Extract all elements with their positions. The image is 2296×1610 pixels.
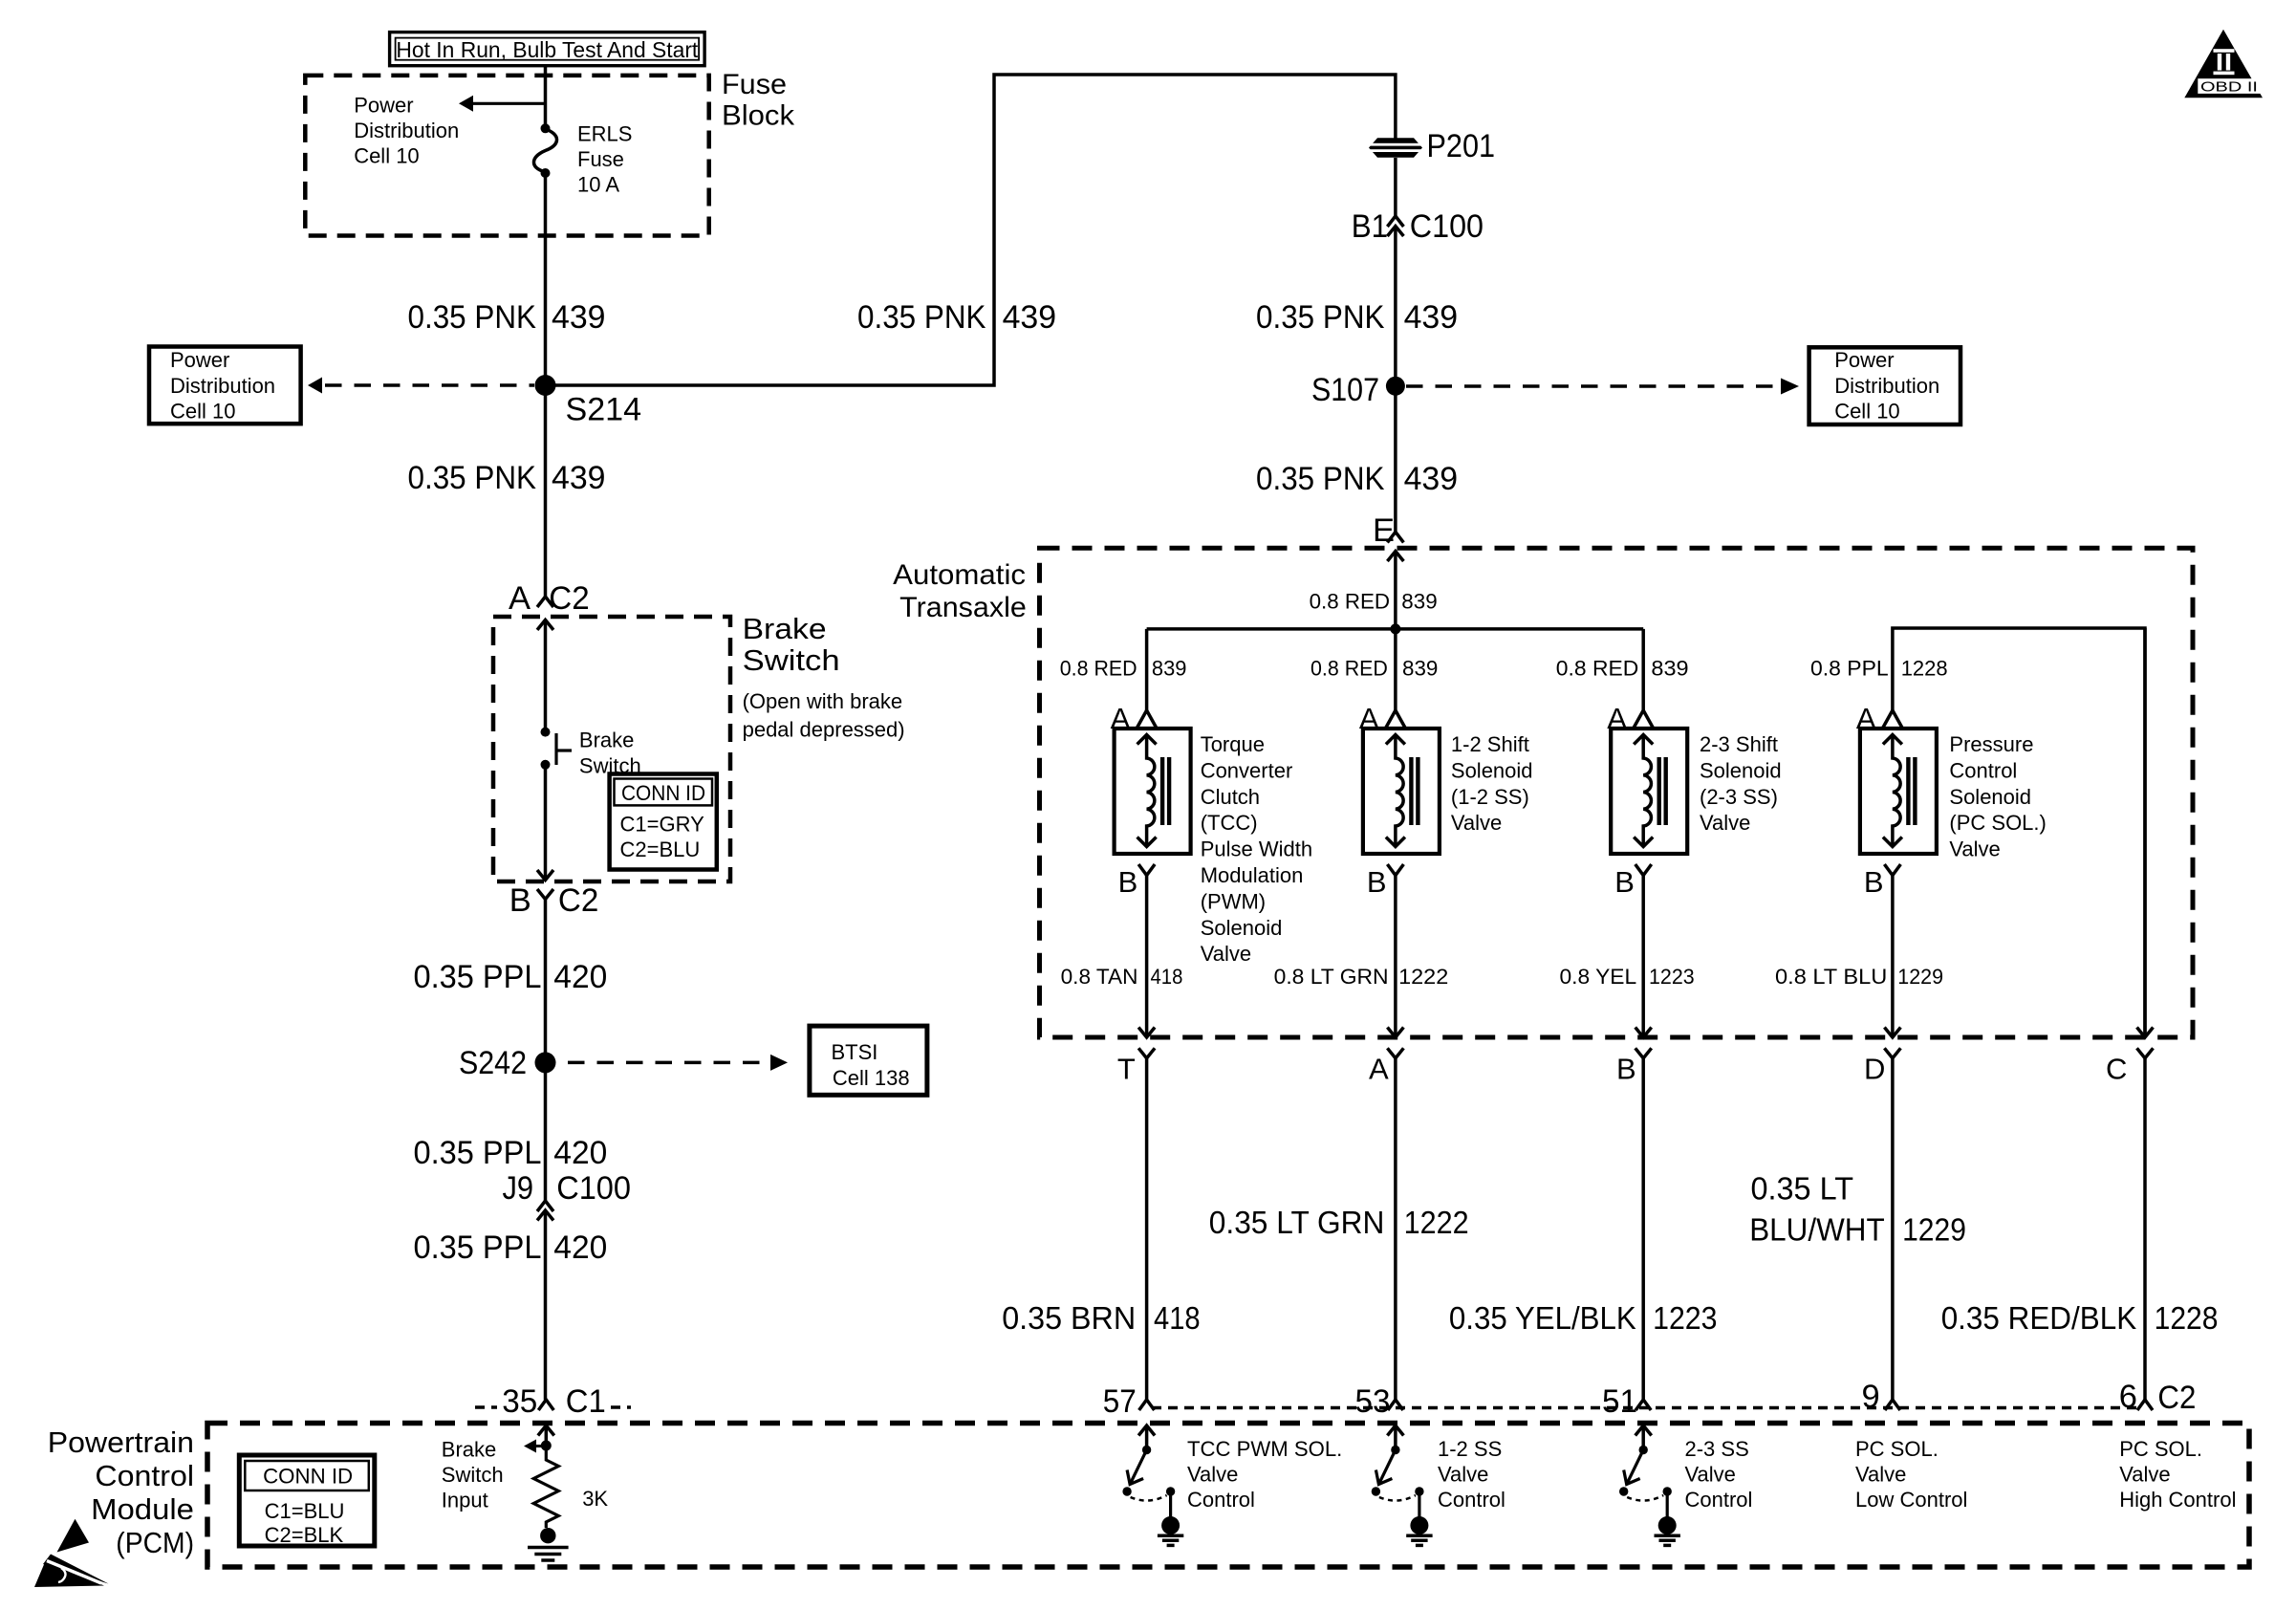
svg-text:Switch: Switch <box>442 1463 504 1487</box>
svg-text:(PCM): (PCM) <box>116 1526 194 1559</box>
svg-text:Module: Module <box>91 1492 194 1526</box>
svg-text:(1-2 SS): (1-2 SS) <box>1451 785 1529 809</box>
svg-text:A: A <box>509 580 531 617</box>
svg-text:P201: P201 <box>1427 128 1496 164</box>
svg-text:1222: 1222 <box>1398 965 1448 989</box>
svg-text:1228: 1228 <box>2155 1300 2219 1336</box>
svg-text:C1=GRY: C1=GRY <box>620 812 705 836</box>
svg-text:Fuse: Fuse <box>577 147 624 171</box>
svg-text:Solenoid: Solenoid <box>1700 758 1782 782</box>
svg-text:53: 53 <box>1355 1383 1391 1420</box>
svg-text:0.35 PPL: 0.35 PPL <box>414 959 542 995</box>
svg-text:6: 6 <box>2119 1379 2137 1415</box>
svg-text:0.8 RED: 0.8 RED <box>1310 657 1388 681</box>
svg-text:Solenoid: Solenoid <box>1949 785 2031 809</box>
svg-text:0.35 RED/BLK: 0.35 RED/BLK <box>1941 1300 2137 1336</box>
svg-text:C2=BLK: C2=BLK <box>265 1523 344 1547</box>
svg-text:1223: 1223 <box>1649 965 1695 989</box>
svg-text:C1=BLU: C1=BLU <box>265 1499 345 1523</box>
svg-text:C: C <box>2106 1053 2127 1086</box>
svg-text:Valve: Valve <box>1685 1463 1736 1487</box>
svg-text:Brake: Brake <box>442 1438 496 1462</box>
svg-text:Control: Control <box>1438 1488 1505 1512</box>
svg-text:51: 51 <box>1602 1383 1637 1420</box>
svg-text:420: 420 <box>553 959 607 995</box>
svg-text:Cell 138: Cell 138 <box>833 1066 910 1090</box>
svg-text:Control: Control <box>95 1459 194 1492</box>
svg-text:Modulation: Modulation <box>1201 863 1304 887</box>
svg-text:CONN ID: CONN ID <box>621 781 705 805</box>
svg-text:Control: Control <box>1685 1488 1753 1512</box>
svg-text:439: 439 <box>1003 299 1057 336</box>
svg-text:(Open with brake: (Open with brake <box>743 689 903 713</box>
svg-text:Brake: Brake <box>579 729 634 752</box>
svg-text:(2-3 SS): (2-3 SS) <box>1700 785 1778 809</box>
svg-text:Hot In Run, Bulb Test And Star: Hot In Run, Bulb Test And Start <box>396 37 698 62</box>
svg-text:Distribution: Distribution <box>170 374 275 398</box>
svg-text:C2: C2 <box>549 580 589 617</box>
svg-text:Power: Power <box>354 93 413 117</box>
svg-text:0.35 PPL: 0.35 PPL <box>414 1229 542 1266</box>
svg-text:418: 418 <box>1151 965 1183 989</box>
svg-text:OBD II: OBD II <box>2200 80 2258 96</box>
svg-text:CONN ID: CONN ID <box>263 1465 353 1489</box>
svg-text:0.8 YEL: 0.8 YEL <box>1560 965 1637 989</box>
svg-text:Distribution: Distribution <box>1834 374 1939 398</box>
svg-text:839: 839 <box>1401 590 1437 614</box>
svg-text:B1: B1 <box>1352 208 1388 245</box>
svg-text:439: 439 <box>552 299 606 336</box>
svg-text:420: 420 <box>553 1229 607 1266</box>
svg-text:Power: Power <box>170 348 229 372</box>
svg-text:B: B <box>1367 865 1387 899</box>
svg-text:0.8 LT GRN: 0.8 LT GRN <box>1274 965 1389 989</box>
svg-text:S214: S214 <box>566 392 642 428</box>
svg-text:Pressure: Pressure <box>1949 732 2033 756</box>
svg-text:C2=BLU: C2=BLU <box>620 838 701 861</box>
svg-text:(PWM): (PWM) <box>1201 889 1266 913</box>
svg-text:Automatic: Automatic <box>893 559 1026 591</box>
svg-text:Brake: Brake <box>743 612 827 645</box>
svg-text:Valve: Valve <box>1187 1463 1238 1487</box>
svg-text:TCC PWM SOL.: TCC PWM SOL. <box>1187 1437 1342 1461</box>
svg-text:0.8 TAN: 0.8 TAN <box>1061 965 1138 989</box>
svg-text:0.35 BRN: 0.35 BRN <box>1002 1300 1136 1336</box>
svg-text:1223: 1223 <box>1653 1300 1717 1336</box>
svg-text:Power: Power <box>1834 348 1894 372</box>
svg-text:C2: C2 <box>558 882 598 919</box>
svg-text:0.8 RED: 0.8 RED <box>1060 657 1137 681</box>
svg-text:C100: C100 <box>1410 208 1484 245</box>
svg-text:Cell 10: Cell 10 <box>354 143 419 167</box>
svg-text:3K: 3K <box>582 1487 608 1511</box>
svg-text:Input: Input <box>442 1489 488 1512</box>
svg-text:Clutch: Clutch <box>1201 785 1260 809</box>
svg-text:Block: Block <box>722 100 795 132</box>
svg-text:57: 57 <box>1103 1383 1137 1420</box>
svg-text:0.35 PNK: 0.35 PNK <box>408 299 537 336</box>
svg-text:1229: 1229 <box>1897 965 1943 989</box>
svg-text:10 A: 10 A <box>577 173 619 197</box>
svg-text:Valve: Valve <box>1949 838 2000 861</box>
svg-text:35: 35 <box>502 1383 537 1420</box>
svg-text:High Control: High Control <box>2119 1488 2236 1512</box>
svg-text:Torque: Torque <box>1201 732 1265 756</box>
svg-text:Solenoid: Solenoid <box>1201 916 1283 940</box>
svg-text:D: D <box>1864 1053 1885 1086</box>
svg-text:Solenoid: Solenoid <box>1451 758 1533 782</box>
svg-text:0.35 LT GRN: 0.35 LT GRN <box>1209 1205 1385 1240</box>
svg-text:S242: S242 <box>459 1045 527 1081</box>
svg-text:0.8 RED: 0.8 RED <box>1310 590 1391 614</box>
svg-text:1229: 1229 <box>1902 1212 1966 1248</box>
svg-text:Converter: Converter <box>1201 758 1293 782</box>
svg-text:839: 839 <box>1152 657 1187 681</box>
svg-text:Valve: Valve <box>1201 942 1251 966</box>
svg-text:0.8 RED: 0.8 RED <box>1556 657 1639 681</box>
svg-text:418: 418 <box>1154 1300 1201 1336</box>
svg-text:0.35 PPL: 0.35 PPL <box>414 1135 542 1171</box>
svg-text:B: B <box>1864 865 1884 899</box>
svg-text:S107: S107 <box>1311 372 1379 408</box>
svg-text:1-2 SS: 1-2 SS <box>1438 1437 1502 1461</box>
svg-text:839: 839 <box>1651 657 1688 681</box>
svg-text:0.35 PNK: 0.35 PNK <box>857 299 986 336</box>
svg-text:1222: 1222 <box>1404 1205 1469 1240</box>
svg-text:Control: Control <box>1187 1488 1255 1512</box>
svg-text:BLU/WHT: BLU/WHT <box>1749 1212 1885 1248</box>
svg-text:C1: C1 <box>566 1383 606 1420</box>
svg-text:Valve: Valve <box>1700 811 1750 835</box>
svg-text:B: B <box>1118 865 1138 899</box>
svg-text:Distribution: Distribution <box>354 119 459 142</box>
svg-text:Valve: Valve <box>1855 1463 1906 1487</box>
svg-text:439: 439 <box>1404 299 1459 336</box>
svg-text:C100: C100 <box>556 1170 631 1207</box>
svg-text:0.35 LT: 0.35 LT <box>1751 1171 1854 1207</box>
svg-text:1-2 Shift: 1-2 Shift <box>1451 732 1529 756</box>
svg-text:BTSI: BTSI <box>832 1040 878 1064</box>
svg-text:B: B <box>1616 1053 1636 1086</box>
svg-text:Control: Control <box>1949 758 2017 782</box>
svg-text:A: A <box>1369 1053 1389 1086</box>
svg-text:B: B <box>1614 865 1635 899</box>
svg-text:Valve: Valve <box>1451 811 1502 835</box>
svg-text:C2: C2 <box>2157 1380 2196 1416</box>
svg-text:0.35 PNK: 0.35 PNK <box>1256 299 1385 336</box>
svg-text:PC SOL.: PC SOL. <box>1855 1437 1939 1461</box>
svg-text:E: E <box>1373 512 1395 549</box>
svg-text:pedal depressed): pedal depressed) <box>743 717 905 741</box>
svg-text:Switch: Switch <box>743 643 840 677</box>
svg-text:0.8 LT BLU: 0.8 LT BLU <box>1775 965 1887 989</box>
svg-text:9: 9 <box>1862 1379 1880 1415</box>
svg-text:Cell 10: Cell 10 <box>170 399 235 423</box>
svg-text:Transaxle: Transaxle <box>899 592 1027 623</box>
svg-text:839: 839 <box>1402 657 1438 681</box>
svg-text:PC SOL.: PC SOL. <box>2119 1437 2202 1461</box>
svg-text:Powertrain: Powertrain <box>48 1425 194 1459</box>
svg-text:Fuse: Fuse <box>722 69 787 100</box>
svg-text:Cell 10: Cell 10 <box>1834 399 1899 423</box>
svg-text:B: B <box>509 882 531 919</box>
svg-text:(TCC): (TCC) <box>1201 811 1258 835</box>
svg-text:0.35 PNK: 0.35 PNK <box>1256 461 1385 497</box>
svg-text:(PC SOL.): (PC SOL.) <box>1949 811 2046 835</box>
svg-text:0.8 PPL: 0.8 PPL <box>1810 657 1889 681</box>
svg-text:0.35 PNK: 0.35 PNK <box>408 460 537 496</box>
svg-text:439: 439 <box>552 460 606 496</box>
svg-text:Valve: Valve <box>2119 1463 2170 1487</box>
svg-text:T: T <box>1117 1053 1136 1086</box>
svg-text:Valve: Valve <box>1438 1463 1488 1487</box>
svg-text:2-3 Shift: 2-3 Shift <box>1700 732 1778 756</box>
svg-text:1228: 1228 <box>1901 657 1948 681</box>
svg-text:Low Control: Low Control <box>1855 1488 1967 1512</box>
svg-text:0.35 YEL/BLK: 0.35 YEL/BLK <box>1449 1300 1636 1336</box>
svg-text:Pulse Width: Pulse Width <box>1201 838 1312 861</box>
svg-text:420: 420 <box>553 1135 607 1171</box>
svg-text:439: 439 <box>1404 461 1459 497</box>
svg-text:ERLS: ERLS <box>577 122 632 146</box>
svg-text:2-3 SS: 2-3 SS <box>1685 1437 1749 1461</box>
svg-text:J9: J9 <box>503 1170 534 1207</box>
